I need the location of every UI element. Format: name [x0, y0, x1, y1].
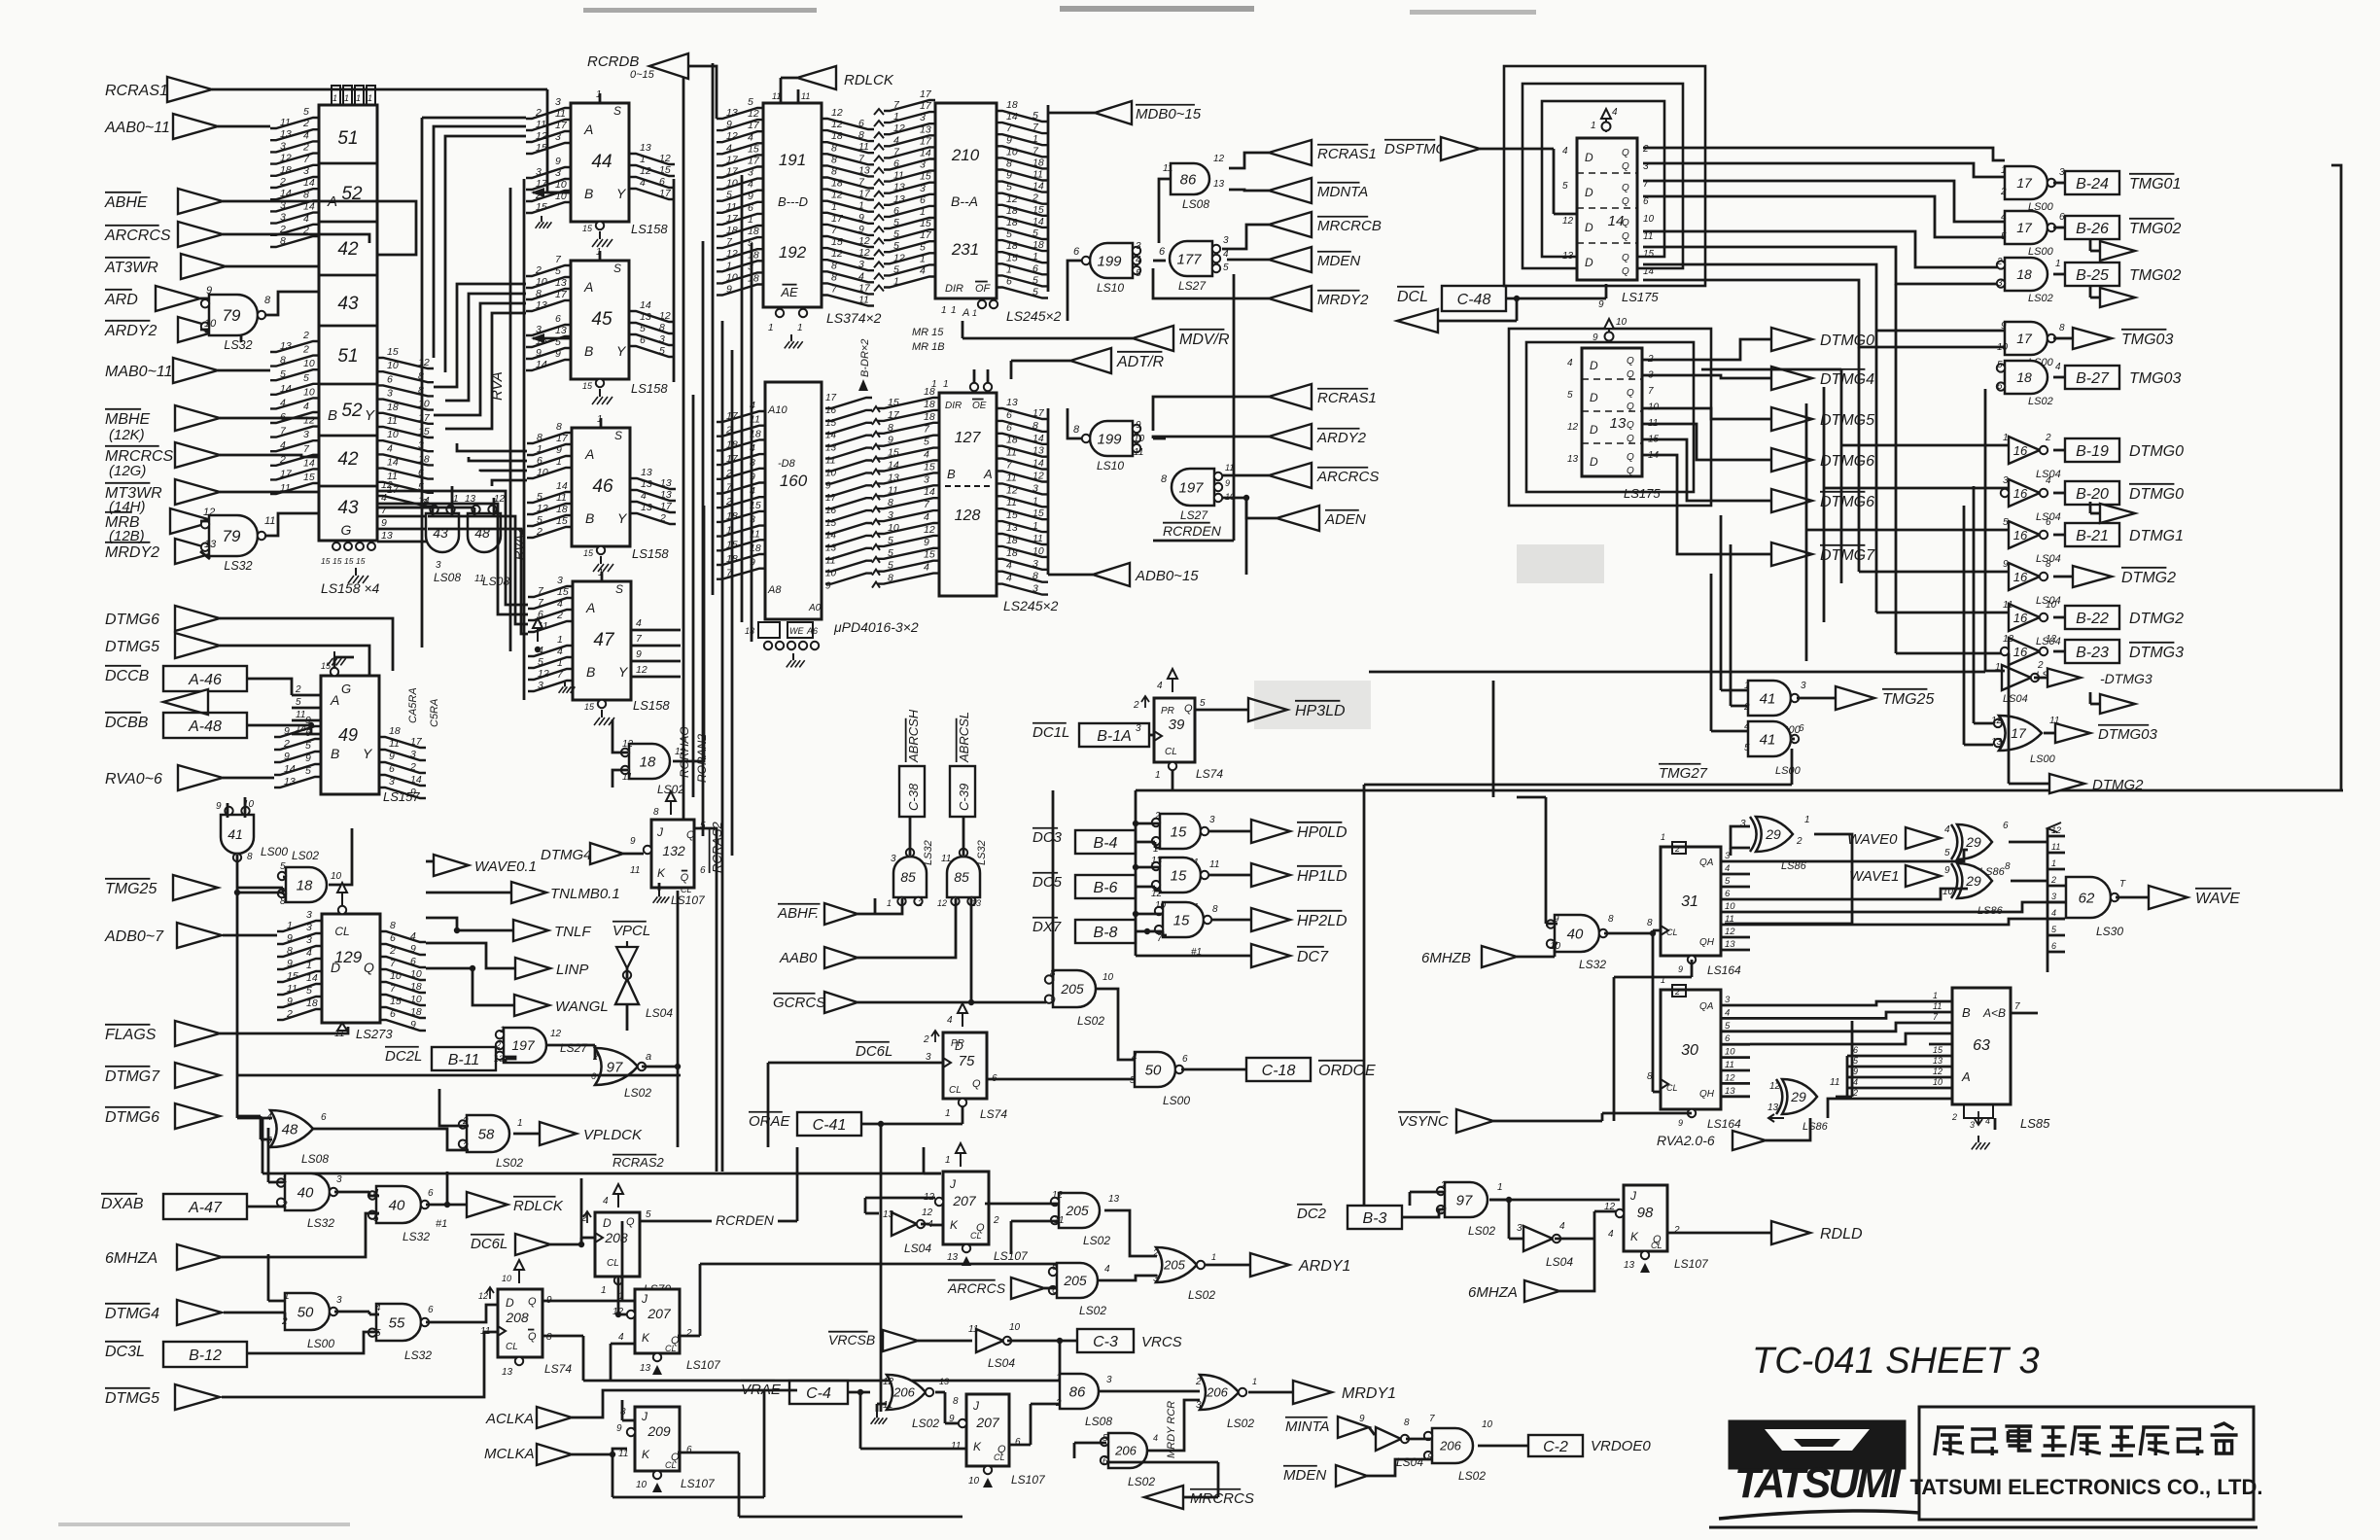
- svg-text:DTMG03: DTMG03: [2098, 726, 2158, 743]
- svg-text:2: 2: [1440, 1180, 1447, 1191]
- svg-text:11: 11: [801, 91, 810, 101]
- svg-text:LS374×2: LS374×2: [826, 310, 882, 326]
- svg-text:1: 1: [726, 260, 732, 271]
- svg-text:46: 46: [592, 476, 613, 497]
- svg-text:13: 13: [284, 776, 296, 787]
- pins U49 A: [292, 684, 321, 734]
- svg-text:3: 3: [306, 934, 312, 946]
- svg-text:8: 8: [546, 1332, 552, 1343]
- output WAVE0.1: [434, 855, 537, 876]
- svg-text:LS00: LS00: [2028, 246, 2054, 258]
- svg-text:8: 8: [280, 896, 286, 907]
- svg-text:Q: Q: [528, 1331, 537, 1343]
- wire 202a: [921, 1224, 943, 1225]
- svg-text:43: 43: [337, 498, 359, 518]
- nor 58 LS02: [459, 1115, 524, 1170]
- svg-text:VRDOE0: VRDOE0: [1591, 1438, 1651, 1454]
- svg-text:30: 30: [1681, 1042, 1698, 1059]
- svg-text:VRAE: VRAE: [741, 1382, 782, 1398]
- input ARCRCS2: [947, 1277, 1056, 1299]
- inverter 16-0 LS04: [2003, 433, 2061, 480]
- input MRB: [105, 508, 215, 534]
- svg-text:17: 17: [726, 166, 739, 178]
- fan U49 out: [379, 725, 426, 798]
- svg-text:5: 5: [748, 96, 753, 108]
- net MDB0~15: [1048, 101, 1202, 292]
- output DTMG5 mid: [1771, 407, 1874, 431]
- svg-text:14: 14: [410, 774, 422, 786]
- svg-text:12: 12: [831, 190, 843, 201]
- output TMG02: [2053, 262, 2181, 286]
- svg-text:A<B: A<B: [1982, 1006, 2006, 1020]
- svg-text:TMG25: TMG25: [105, 881, 157, 897]
- svg-text:CL: CL: [1165, 747, 1177, 757]
- nand 17b LS00: [2001, 211, 2065, 258]
- net RCRDEN mid: [1153, 523, 1234, 541]
- svg-text:8: 8: [247, 852, 253, 862]
- nand 85a LS32: [887, 840, 934, 908]
- svg-text:17: 17: [920, 88, 932, 100]
- svg-text:13: 13: [888, 472, 899, 483]
- nor 205a LS02: [1045, 968, 1114, 1028]
- svg-text:LS245×2: LS245×2: [1003, 598, 1059, 613]
- svg-text:2: 2: [536, 526, 542, 538]
- svg-text:LS32: LS32: [224, 338, 252, 352]
- wire DTMG4 to50: [224, 1254, 285, 1320]
- svg-text:LS04: LS04: [988, 1356, 1015, 1370]
- svg-text:ARDY2: ARDY2: [1316, 430, 1367, 446]
- ground 206a: [871, 1404, 888, 1424]
- svg-text:3: 3: [280, 140, 286, 152]
- svg-text:10: 10: [1009, 1322, 1021, 1333]
- svg-text:1: 1: [344, 93, 349, 103]
- svg-text:12: 12: [883, 1377, 894, 1387]
- wire MBHE: [220, 417, 319, 420]
- svg-text:10: 10: [387, 360, 399, 371]
- svg-text:8: 8: [556, 421, 562, 433]
- svg-text:LS27: LS27: [560, 1041, 588, 1055]
- svg-text:18: 18: [410, 981, 422, 993]
- svg-text:3: 3: [1801, 681, 1806, 691]
- vcc pin U47: [533, 618, 542, 652]
- svg-text:6: 6: [537, 455, 542, 467]
- svg-text:10: 10: [303, 386, 315, 398]
- svg-text:1: 1: [356, 93, 361, 103]
- svg-text:1: 1: [1211, 1252, 1216, 1262]
- svg-text:12: 12: [1213, 154, 1225, 164]
- svg-text:3: 3: [858, 259, 864, 270]
- svg-text:15: 15: [582, 224, 593, 233]
- and 206d LS02: [1101, 1433, 1158, 1488]
- nand 62 LS30: [2066, 877, 2126, 938]
- svg-text:5: 5: [924, 437, 929, 448]
- svg-text:8: 8: [831, 154, 837, 165]
- svg-text:11: 11: [772, 91, 781, 101]
- svg-text:5: 5: [888, 560, 893, 572]
- svg-text:9: 9: [305, 752, 311, 764]
- svg-text:4: 4: [2051, 908, 2056, 918]
- svg-text:TMG03: TMG03: [2121, 332, 2173, 348]
- svg-text:DIR: DIR: [945, 401, 962, 411]
- label uPD4016: [833, 619, 919, 635]
- fan U210 in: [884, 88, 935, 288]
- svg-text:17: 17: [2011, 725, 2027, 741]
- svg-text:1: 1: [920, 253, 926, 264]
- svg-text:42: 42: [337, 239, 359, 260]
- node DC5 B-6: [1032, 873, 1160, 898]
- svg-text:6: 6: [1006, 409, 1012, 421]
- svg-text:14: 14: [303, 457, 315, 469]
- svg-text:5: 5: [296, 697, 301, 708]
- mux bank U51/52/42/43 LS158x4: [319, 105, 377, 541]
- svg-text:18: 18: [1006, 217, 1018, 228]
- svg-text:ORAE: ORAE: [749, 1113, 791, 1130]
- label LS175b: [1624, 486, 1661, 501]
- stub U30 out: [1721, 995, 1750, 1097]
- wire 85 outs: [910, 817, 963, 856]
- svg-text:1: 1: [556, 456, 562, 468]
- svg-text:LS04: LS04: [1396, 1455, 1423, 1469]
- output DTMG0: [2053, 481, 2184, 505]
- wire ARCRCS: [223, 234, 369, 243]
- svg-text:5: 5: [1744, 743, 1750, 753]
- svg-text:4: 4: [1153, 1433, 1158, 1443]
- svg-text:17: 17: [920, 135, 932, 147]
- svg-text:3: 3: [2051, 892, 2056, 901]
- svg-text:4: 4: [924, 511, 929, 523]
- loops around U14: [1504, 66, 1705, 286]
- svg-text:10: 10: [968, 1476, 980, 1487]
- svg-text:40: 40: [389, 1197, 405, 1213]
- svg-text:8: 8: [1032, 571, 1038, 582]
- svg-text:5: 5: [640, 323, 646, 334]
- svg-text:12: 12: [1725, 1072, 1735, 1083]
- svg-text:8: 8: [659, 322, 665, 333]
- fan U129 in: [277, 909, 322, 1020]
- svg-text:13: 13: [640, 142, 651, 154]
- svg-text:A10: A10: [767, 404, 787, 416]
- svg-text:6: 6: [2003, 821, 2009, 831]
- svg-text:11: 11: [888, 484, 898, 496]
- svg-text:14: 14: [640, 299, 651, 311]
- svg-text:LS02: LS02: [2028, 396, 2053, 407]
- svg-text:ARCRCS: ARCRCS: [1316, 469, 1379, 485]
- vcc U39: [1133, 669, 1177, 711]
- svg-text:DTMG2: DTMG2: [2129, 611, 2184, 627]
- svg-text:4: 4: [636, 617, 642, 629]
- svg-text:LS08: LS08: [301, 1152, 329, 1166]
- svg-text:11: 11: [296, 710, 305, 720]
- svg-text:17: 17: [831, 213, 844, 225]
- nand 41b LS00: [1744, 721, 1804, 777]
- svg-text:LS158: LS158: [631, 381, 668, 396]
- wire DTMG6b: [237, 1116, 272, 1139]
- svg-text:RDLCK: RDLCK: [513, 1198, 564, 1214]
- svg-text:1: 1: [893, 111, 899, 122]
- svg-text:ARCRCS: ARCRCS: [104, 227, 171, 244]
- svg-text:CL: CL: [665, 1460, 677, 1470]
- svg-text:10: 10: [1725, 901, 1735, 912]
- svg-text:4: 4: [557, 598, 563, 610]
- svg-text:3: 3: [436, 560, 441, 571]
- svg-text:WANGL: WANGL: [555, 998, 609, 1015]
- svg-text:9: 9: [536, 347, 542, 359]
- svg-text:4: 4: [603, 1196, 609, 1207]
- svg-text:ABHF.: ABHF.: [777, 905, 819, 922]
- svg-text:DCCB: DCCB: [105, 668, 150, 684]
- svg-text:9: 9: [555, 348, 561, 360]
- svg-text:2: 2: [2037, 660, 2044, 671]
- svg-text:12: 12: [478, 1291, 488, 1301]
- svg-text:4: 4: [375, 1303, 381, 1313]
- svg-text:PR: PR: [1161, 706, 1174, 717]
- fan U45 A: [526, 254, 571, 311]
- svg-text:8: 8: [1404, 1417, 1410, 1428]
- svg-text:12: 12: [550, 1029, 562, 1039]
- svg-text:5: 5: [1032, 274, 1038, 286]
- svg-text:10: 10: [204, 318, 217, 330]
- svg-text:9: 9: [750, 557, 755, 569]
- svg-text:2: 2: [2050, 875, 2056, 885]
- d-ff U208a LS70: [595, 1212, 640, 1277]
- wire DCCB: [247, 679, 292, 695]
- svg-text:LS10: LS10: [1097, 281, 1124, 295]
- svg-text:Q: Q: [528, 1296, 537, 1308]
- node C-38 ABRCSH: [899, 709, 925, 817]
- svg-text:11: 11: [287, 983, 297, 995]
- wire 79a out: [241, 292, 319, 342]
- svg-text:13: 13: [660, 489, 672, 501]
- svg-text:6: 6: [1006, 422, 1012, 434]
- svg-text:4: 4: [1157, 681, 1163, 691]
- svg-text:9: 9: [750, 472, 755, 483]
- svg-text:DC5: DC5: [1032, 874, 1063, 891]
- svg-text:LS32: LS32: [402, 1230, 430, 1243]
- svg-text:5: 5: [1130, 1075, 1136, 1086]
- wire 79b out: [264, 513, 319, 536]
- strobe pins top of U51: [332, 86, 375, 105]
- svg-text:D: D: [1585, 151, 1593, 164]
- svg-text:C-48: C-48: [1457, 292, 1491, 308]
- svg-text:FLAGS: FLAGS: [105, 1027, 157, 1043]
- svg-text:13: 13: [641, 467, 652, 478]
- svg-text:MDNTA: MDNTA: [1317, 184, 1368, 200]
- svg-text:6: 6: [390, 932, 396, 944]
- svg-text:17: 17: [1032, 407, 1045, 419]
- svg-text:15: 15: [536, 201, 547, 213]
- svg-text:9: 9: [1598, 299, 1604, 310]
- svg-text:16: 16: [2013, 645, 2028, 659]
- svg-text:13: 13: [1006, 397, 1018, 408]
- svg-text:4: 4: [1559, 1221, 1565, 1232]
- svg-text:15: 15: [390, 996, 402, 1007]
- svg-text:40: 40: [297, 1184, 314, 1201]
- wire 97 out: [642, 891, 681, 1069]
- wire 207b: [618, 1221, 1057, 1336]
- svg-text:8: 8: [1006, 158, 1012, 170]
- wires U13 to gates: [1701, 284, 2009, 661]
- svg-text:12: 12: [659, 153, 671, 164]
- svg-text:VSYNC: VSYNC: [1398, 1113, 1449, 1130]
- svg-text:6: 6: [920, 194, 926, 206]
- svg-text:WAVE: WAVE: [2195, 891, 2240, 907]
- input MINTA: [1285, 1414, 1375, 1438]
- pins U132: [630, 821, 706, 907]
- output HP3LD: [1195, 698, 1346, 721]
- svg-text:8: 8: [1161, 473, 1168, 485]
- stub U160 D2: [825, 493, 837, 591]
- svg-text:LS10: LS10: [1097, 459, 1124, 472]
- svg-text:10: 10: [636, 1480, 647, 1490]
- svg-text:44: 44: [591, 152, 612, 172]
- svg-text:13: 13: [1032, 445, 1044, 457]
- svg-text:Q: Q: [686, 829, 695, 841]
- wire 40c in9: [1517, 797, 1557, 924]
- output DTMG3: [2053, 640, 2184, 663]
- svg-text:5: 5: [537, 514, 542, 526]
- input ARD: [104, 286, 200, 311]
- svg-text:15: 15: [387, 346, 399, 358]
- svg-text:6: 6: [1725, 889, 1731, 899]
- svg-text:A: A: [583, 279, 593, 295]
- svg-text:12: 12: [1725, 927, 1735, 937]
- svg-text:18: 18: [924, 411, 935, 423]
- wire orae down: [880, 1157, 883, 1412]
- hp feedback rect: [1136, 770, 2343, 1206]
- svg-text:K: K: [657, 866, 666, 880]
- wire DC3L to55: [247, 1332, 379, 1353]
- svg-text:D: D: [1585, 186, 1593, 199]
- svg-text:1: 1: [1155, 770, 1161, 781]
- svg-text:LS00: LS00: [307, 1337, 334, 1350]
- svg-text:3: 3: [538, 680, 543, 691]
- svg-text:13: 13: [640, 311, 651, 323]
- svg-text:9: 9: [556, 444, 562, 456]
- svg-text:6MHZB: 6MHZB: [1421, 950, 1471, 966]
- svg-text:207: 207: [975, 1415, 1000, 1430]
- svg-text:6: 6: [700, 865, 706, 876]
- wire 58 in2: [439, 1089, 469, 1126]
- svg-text:18: 18: [306, 997, 318, 1009]
- svg-text:a: a: [646, 1051, 651, 1063]
- fan U45 Y: [630, 299, 675, 357]
- svg-text:15: 15: [356, 556, 366, 566]
- svg-text:5: 5: [893, 263, 899, 275]
- svg-text:A: A: [1961, 1069, 1971, 1084]
- wires 30 to 63 B: [1750, 1001, 1929, 1044]
- svg-text:ORDOE: ORDOE: [1318, 1063, 1376, 1079]
- svg-text:OE: OE: [972, 401, 987, 411]
- svg-text:2: 2: [1154, 811, 1161, 822]
- svg-text:LS164: LS164: [1707, 1117, 1741, 1131]
- input MBHE: [105, 405, 220, 431]
- input DTMG6: [105, 606, 220, 631]
- svg-text:6: 6: [659, 176, 665, 188]
- svg-text:8: 8: [953, 1396, 959, 1407]
- svg-text:LS158 ×4: LS158 ×4: [321, 580, 380, 596]
- svg-text:11: 11: [264, 515, 275, 527]
- svg-text:4: 4: [1006, 573, 1012, 584]
- svg-text:ACLKA: ACLKA: [485, 1411, 534, 1427]
- svg-text:LS32: LS32: [1579, 958, 1606, 971]
- svg-text:14: 14: [888, 460, 899, 472]
- svg-text:B: B: [947, 467, 956, 481]
- svg-text:1: 1: [2051, 858, 2056, 868]
- output MRDY2: [1269, 286, 1369, 311]
- svg-text:2: 2: [659, 512, 666, 524]
- net DC6L label: [768, 1042, 943, 1147]
- svg-text:206: 206: [1439, 1439, 1461, 1453]
- vcc U132: [653, 791, 676, 818]
- pins U39: [1136, 698, 1223, 781]
- svg-text:3: 3: [1725, 995, 1731, 1005]
- svg-text:Q: Q: [1184, 703, 1193, 715]
- svg-text:3: 3: [748, 167, 753, 179]
- svg-text:4: 4: [858, 270, 864, 282]
- svg-text:11: 11: [556, 492, 567, 504]
- svg-text:8: 8: [831, 142, 837, 154]
- svg-text:12: 12: [1933, 1067, 1942, 1076]
- svg-text:13: 13: [939, 1377, 949, 1386]
- svg-text:K: K: [642, 1448, 650, 1461]
- svg-text:10: 10: [410, 968, 422, 980]
- svg-text:11: 11: [555, 108, 566, 120]
- node DXAB A-47: [101, 1194, 247, 1219]
- output WAVE: [2116, 886, 2240, 909]
- svg-text:2: 2: [302, 344, 309, 356]
- svg-text:A-48: A-48: [188, 718, 222, 735]
- svg-text:13: 13: [883, 1209, 894, 1220]
- svg-text:47: 47: [593, 630, 615, 650]
- svg-text:9: 9: [410, 943, 416, 955]
- svg-text:85: 85: [954, 869, 969, 885]
- wire AT3WR: [226, 265, 319, 268]
- wire ARD to 79a: [200, 298, 210, 332]
- svg-text:13: 13: [726, 107, 738, 119]
- svg-text:9: 9: [1944, 865, 1950, 876]
- svg-text:9: 9: [1592, 332, 1598, 343]
- svg-text:3: 3: [1032, 583, 1038, 595]
- svg-text:9: 9: [410, 1019, 416, 1031]
- svg-text:11: 11: [858, 295, 869, 306]
- nand 15a LS32: [1152, 811, 1215, 868]
- svg-text:5: 5: [920, 241, 926, 253]
- wire 50-55: [334, 1312, 379, 1314]
- svg-text:Q: Q: [1622, 196, 1629, 207]
- svg-text:DSPTMG: DSPTMG: [1384, 141, 1448, 157]
- svg-text:2: 2: [1743, 702, 1750, 713]
- svg-text:1: 1: [601, 1285, 607, 1296]
- svg-text:B-24: B-24: [2076, 176, 2109, 192]
- svg-text:LS85: LS85: [2020, 1116, 2050, 1131]
- ground U47B: [559, 681, 576, 693]
- svg-text:6: 6: [1006, 276, 1012, 288]
- net RCRAS2 low: [262, 1118, 941, 1173]
- output DTMG7 mid: [1771, 542, 1875, 566]
- svg-text:TATSUMI ELECTRONICS CO., LTD.: TATSUMI ELECTRONICS CO., LTD.: [1910, 1475, 2263, 1499]
- nor 18b LS02: [621, 739, 686, 796]
- svg-text:10: 10: [1482, 1419, 1493, 1430]
- svg-text:B---D: B---D: [778, 194, 808, 209]
- svg-text:197: 197: [511, 1037, 536, 1053]
- pins 207c: [949, 1396, 1046, 1487]
- svg-text:1: 1: [887, 898, 892, 908]
- svg-text:15: 15: [920, 218, 931, 229]
- svg-text:9: 9: [287, 932, 293, 944]
- node DC3 B-4: [1032, 828, 1160, 854]
- svg-text:12: 12: [1769, 1081, 1781, 1092]
- output DTMG0 mid: [1771, 328, 1874, 351]
